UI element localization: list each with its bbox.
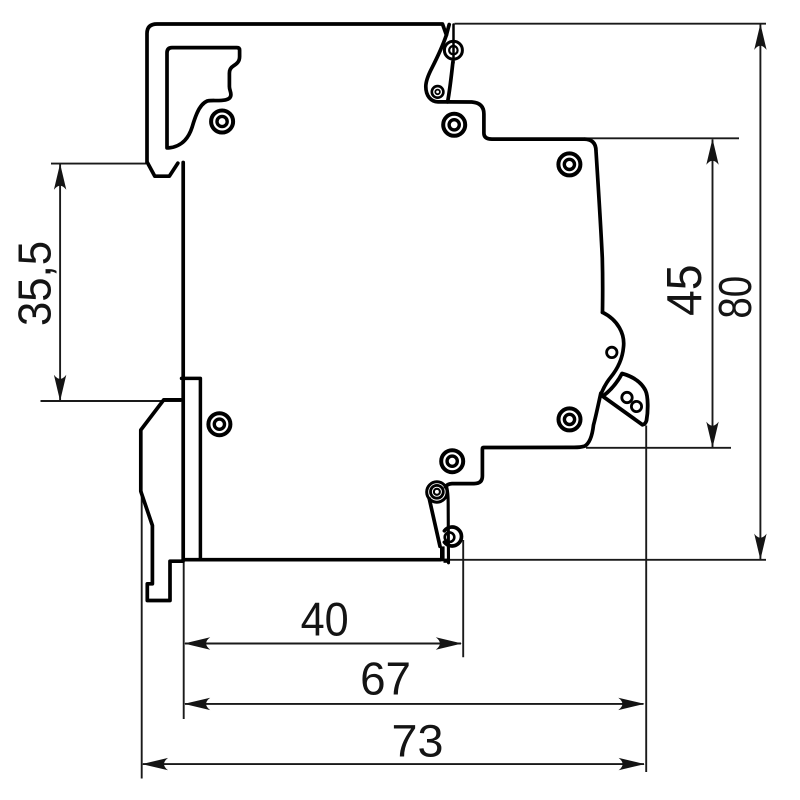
- bottom contact small circle: [445, 532, 455, 542]
- screw head circle: [431, 41, 642, 542]
- bottom clamp head circle: [427, 482, 447, 502]
- extension line DIN clip for 73: [141, 491, 143, 779]
- body bottom edge: [183, 558, 440, 562]
- rivet bottom terminal: [441, 450, 463, 472]
- bottom clamp right edge and foot stem: [447, 487, 449, 563]
- svg-text:80: 80: [709, 276, 761, 319]
- svg-text:40: 40: [301, 592, 349, 645]
- arrowhead 73 right: [619, 758, 645, 770]
- svg-text:67: 67: [360, 653, 411, 705]
- arrowhead 80 up: [754, 24, 766, 50]
- lever small circle 2: [631, 401, 641, 411]
- body top-left outline with V-notch: [147, 24, 449, 163]
- bottom contact bowl (P shape): [444, 527, 461, 546]
- svg-text:35,5: 35,5: [9, 241, 61, 326]
- extension line bottom terminal for 40: [462, 540, 464, 657]
- arrowhead 35,5 down: [54, 375, 66, 401]
- chamfer tooth: [148, 163, 178, 177]
- rivet hook area: [211, 111, 233, 133]
- arrowhead 45 up: [706, 139, 718, 165]
- dimension line 35,5: [59, 165, 61, 401]
- bottom clamp small circles: [431, 485, 444, 498]
- arrowhead 35,5 up: [54, 164, 66, 190]
- extension line 80 bottom: [448, 559, 766, 561]
- extension line 45 bottom: [586, 447, 731, 449]
- DIN rail flange: [182, 378, 201, 559]
- extension line 45 top: [584, 137, 739, 139]
- extension line 80 top: [455, 23, 767, 25]
- dimension line 45: [712, 139, 714, 447]
- arrowhead 67 left: [184, 698, 210, 710]
- extension line 35,5 top: [51, 163, 146, 165]
- bottom clamp left edge: [429, 499, 440, 546]
- arrowhead 67 right: [618, 698, 644, 710]
- inner hook cutout: [167, 48, 240, 148]
- toggle lever: [603, 374, 648, 425]
- rivet top terminal: [443, 114, 465, 136]
- top clamp teardrop: [426, 35, 453, 102]
- extension line left of body for 40 and 67: [183, 561, 185, 719]
- body right edge lower: [446, 393, 601, 487]
- dimension line 67: [185, 703, 644, 705]
- rivets: outer ring + inner ring: [208, 111, 580, 473]
- hump small circle: [607, 347, 617, 357]
- arrowhead 45 down: [706, 422, 718, 448]
- svg-text:73: 73: [392, 716, 444, 767]
- rivet top right: [558, 153, 580, 175]
- arrowhead 73 left: [142, 758, 168, 770]
- extension line lever tip for 67 and 73: [645, 426, 647, 773]
- dimension line 73: [143, 763, 644, 765]
- screw slot line: [452, 25, 455, 63]
- svg-text:45: 45: [658, 264, 712, 316]
- arrowhead 40 left: [184, 637, 210, 649]
- DIN clip: [141, 400, 183, 601]
- dimension line 80: [759, 24, 761, 559]
- toggle hump arc: [601, 312, 623, 393]
- dimension line 40: [185, 643, 461, 645]
- clamp foot blob below bottom edge: [444, 559, 450, 563]
- lever small circle 1: [622, 392, 632, 402]
- extension line 35,5 bottom: [41, 400, 182, 402]
- arrowhead 80 down: [754, 534, 766, 560]
- body right step outline: [448, 102, 603, 312]
- rivet bottom right: [559, 408, 581, 430]
- clamp cage black bar: [440, 546, 445, 561]
- top clamp small circle: [432, 86, 444, 98]
- arrowhead 40 right: [436, 637, 462, 649]
- rivet bottom left: [208, 413, 230, 435]
- left lower wall: [181, 163, 185, 560]
